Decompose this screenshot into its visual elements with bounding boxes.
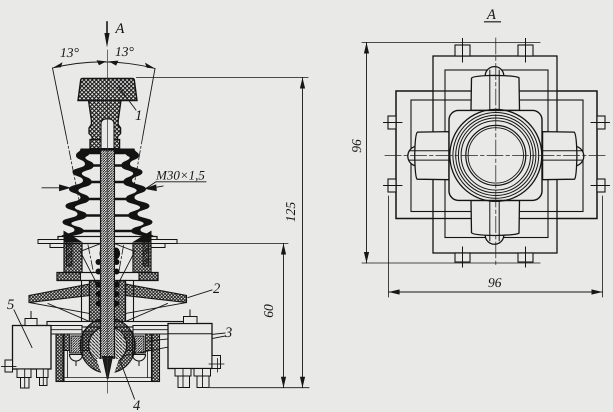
right block terminal screws xyxy=(175,369,211,388)
central rounded square body xyxy=(449,110,542,200)
rod top window in neck xyxy=(101,119,114,149)
upper housing left flange xyxy=(38,239,72,266)
bottom mounting tabs xyxy=(455,253,533,262)
bellows (rubber boot, black) xyxy=(61,149,154,244)
leader for label 5 xyxy=(14,310,32,348)
label M30x1,5 with shelf xyxy=(156,181,206,183)
threaded collar circles xyxy=(450,109,542,201)
leader for label 2 xyxy=(188,290,212,298)
inner housing step lines xyxy=(63,351,152,378)
extension line top (125) xyxy=(137,77,309,79)
outer tall casing square xyxy=(433,56,557,253)
centerline vertical (right view) xyxy=(495,38,497,267)
dimension line 60 xyxy=(261,244,286,388)
vertical dimension 96 (right view) xyxy=(349,43,540,264)
svg-text:96: 96 xyxy=(349,139,364,153)
ball socket (part 3) xyxy=(80,318,135,373)
lower housing left wall xyxy=(56,332,64,382)
svg-text:125: 125 xyxy=(283,202,298,223)
bellows fold lines xyxy=(72,166,143,241)
svg-text:60: 60 xyxy=(261,304,276,318)
svg-text:96: 96 xyxy=(488,275,502,290)
svg-text:13°: 13° xyxy=(60,45,80,60)
center block xyxy=(90,281,126,322)
upper housing right wall xyxy=(133,244,151,273)
leader for label 4 xyxy=(121,362,135,399)
svg-text:4: 4 xyxy=(133,398,140,412)
handle knob (part 1) xyxy=(78,79,137,101)
angle boundary line left (13 deg) xyxy=(53,68,101,305)
right bracket arm xyxy=(133,326,168,335)
right microswitch block xyxy=(168,310,224,372)
thread dimension arrows M30x1.5 xyxy=(42,185,163,191)
spider disc (part 2) left wing xyxy=(29,284,90,322)
central rod (shaft) xyxy=(101,150,115,358)
angle dimension arc 13+13 xyxy=(53,62,156,69)
bottom arm (plunger boss) xyxy=(471,201,520,245)
left plunger with dome cap xyxy=(70,334,83,366)
funnel cone lines inside housing xyxy=(80,244,135,284)
inner wide square xyxy=(411,100,583,212)
lower housing interior xyxy=(63,334,152,382)
svg-text:5: 5 xyxy=(7,297,14,313)
svg-text:A: A xyxy=(486,7,496,23)
upper housing clamp plate xyxy=(58,231,157,244)
upper housing bottom flange xyxy=(57,273,158,281)
spring coils (dots) xyxy=(96,248,121,307)
svg-text:13°: 13° xyxy=(115,44,135,59)
outer wide casing square xyxy=(396,91,597,219)
extension line bottom (datum) xyxy=(210,387,309,389)
guide columns below housing xyxy=(82,281,134,322)
right arm (plunger boss) xyxy=(543,132,584,180)
leader for label 1 xyxy=(119,88,136,111)
top mounting tabs xyxy=(455,45,533,56)
lower housing right wall xyxy=(152,332,160,382)
left microswitch block (part 5) xyxy=(2,312,52,373)
lower housing top hatched band xyxy=(63,334,152,351)
dimension line 125 xyxy=(283,78,305,388)
left mounting tabs xyxy=(388,116,396,192)
spider disc (part 2) right wing xyxy=(126,284,187,322)
left bracket arm xyxy=(51,326,82,335)
leaders for label 3 xyxy=(122,333,225,356)
angle boundary line right (13 deg) xyxy=(113,69,155,306)
right plunger with dome cap xyxy=(133,334,146,366)
svg-text:1: 1 xyxy=(135,108,142,124)
top arm (plunger boss) xyxy=(471,67,520,111)
svg-text:A: A xyxy=(115,21,125,37)
rod pointed tip (part 4 pointer) xyxy=(103,357,113,379)
left block terminal screws xyxy=(17,369,48,388)
label A (view title, underlined) xyxy=(485,7,501,23)
handle neck xyxy=(89,101,122,149)
view arrow A (left view, top) xyxy=(104,22,109,48)
bracket plate xyxy=(47,322,184,332)
upper housing right flange xyxy=(143,239,177,266)
main centerline xyxy=(107,50,109,393)
bellows interior (white) xyxy=(70,154,146,241)
horizontal dimension 96 (right view) xyxy=(389,196,603,297)
inner tall square xyxy=(445,70,548,238)
re-draw wide square over tall fill xyxy=(396,91,597,219)
upper housing left wall xyxy=(64,244,82,273)
right mounting tabs xyxy=(597,116,605,192)
svg-text:3: 3 xyxy=(224,325,232,341)
svg-text:2: 2 xyxy=(213,281,220,297)
centerline horizontal (right view) xyxy=(385,154,608,156)
svg-text:M30×1,5: M30×1,5 xyxy=(155,168,205,183)
ball joint xyxy=(88,326,127,365)
socket bottom opening xyxy=(97,359,120,377)
extension line middle (60) xyxy=(168,243,288,245)
left arm (plunger boss) xyxy=(408,132,449,180)
